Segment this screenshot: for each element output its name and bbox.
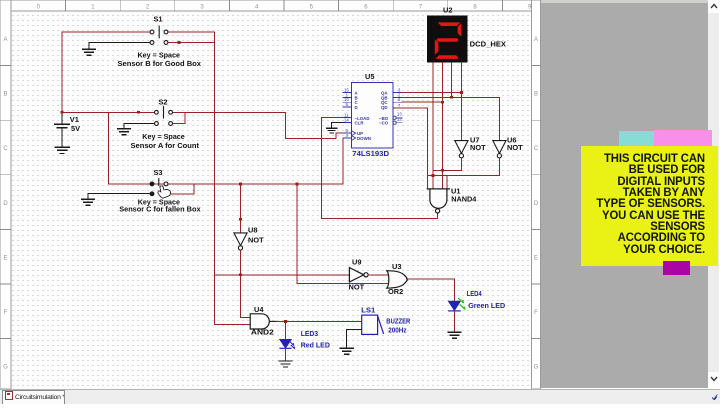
node QA junction xyxy=(460,91,463,94)
LED4 glow arrows xyxy=(459,299,466,310)
wire S2-to-S3 vertical xyxy=(108,112,110,184)
wire U6 output to NAND xyxy=(427,158,499,176)
wire U7 output to NAND xyxy=(434,158,462,171)
svg-text:LED3: LED3 xyxy=(301,329,318,338)
svg-text:LS1: LS1 xyxy=(361,306,375,315)
or-gate U3 xyxy=(387,271,408,288)
wire QC row xyxy=(402,101,442,103)
wire display lead1 to NAND xyxy=(432,62,434,189)
wire S3 row1 xyxy=(109,183,343,185)
wire S2 row2 right xyxy=(173,112,185,123)
ground V1 xyxy=(55,147,69,153)
wire to AND2 input B xyxy=(215,324,251,326)
node U8-U9 junction xyxy=(239,273,242,276)
wire S1 row2 right xyxy=(168,42,215,44)
svg-text:12: 12 xyxy=(397,116,402,121)
svg-text:LED4: LED4 xyxy=(467,289,483,298)
wire DOWN pin to S3 row xyxy=(342,138,344,184)
svg-text:Key = Space: Key = Space xyxy=(142,132,185,141)
counter U5 body xyxy=(352,83,393,148)
top window edge strip xyxy=(0,0,720,3)
seven-segment display U2 xyxy=(427,15,468,62)
svg-text:U4: U4 xyxy=(254,305,264,314)
U5 clock wedges xyxy=(352,131,356,141)
wire NAND input 4 stub xyxy=(446,176,448,189)
svg-text:D: D xyxy=(534,201,539,207)
node S3-OR2 junction xyxy=(296,183,299,186)
U5 pin numbers xyxy=(344,87,402,138)
svg-text:OR2: OR2 xyxy=(388,287,403,296)
U5 left pin stubs xyxy=(343,92,352,138)
wire display lead2 to NAND xyxy=(441,62,443,189)
node battery top junction xyxy=(61,111,64,114)
wire S3 to OR2 lower input xyxy=(297,184,388,284)
U5 pin names xyxy=(355,90,389,141)
svg-text:200Hz: 200Hz xyxy=(388,326,407,335)
svg-text:U2: U2 xyxy=(443,5,452,14)
wire LS1 to ground xyxy=(347,330,362,348)
display pin stubs xyxy=(433,63,462,70)
node S2 row1 dot xyxy=(137,111,140,114)
svg-text:C: C xyxy=(534,146,539,152)
wire V1 to S1 vertical xyxy=(61,32,63,112)
switch S1 xyxy=(150,26,168,44)
svg-text:74LS193D: 74LS193D xyxy=(352,149,389,158)
svg-text:QD: QD xyxy=(381,105,388,110)
wire long vertical from S1 down to AND2 xyxy=(214,32,216,325)
wire display lead4 to U7 xyxy=(460,62,462,140)
svg-text:NOT: NOT xyxy=(248,236,264,245)
svg-text:DCD_HEX: DCD_HEX xyxy=(470,40,506,49)
svg-text:~CO: ~CO xyxy=(379,121,389,126)
svg-text:BUZZER: BUZZER xyxy=(386,317,411,326)
wire S2 ground link xyxy=(124,124,154,129)
svg-text:Red LED: Red LED xyxy=(301,341,331,350)
svg-text:U3: U3 xyxy=(392,262,401,271)
svg-text:D: D xyxy=(355,105,358,110)
wire to U9 input xyxy=(215,274,350,276)
ground S3 xyxy=(82,199,95,205)
canvas background xyxy=(11,11,532,389)
ground LED3 xyxy=(279,361,292,367)
ground S1 xyxy=(82,49,95,55)
svg-text:CLR: CLR xyxy=(355,121,365,126)
svg-text:A: A xyxy=(534,37,538,43)
ground LS1 xyxy=(340,348,353,354)
svg-text:Sensor C for fallen Box: Sensor C for fallen Box xyxy=(119,205,201,214)
wire LED3 to ground xyxy=(285,348,287,360)
node QB junction xyxy=(450,96,453,99)
svg-text:C: C xyxy=(3,146,8,152)
svg-text:Sensor B for Good Box: Sensor B for Good Box xyxy=(118,59,202,68)
wire S3 ground link xyxy=(88,193,150,198)
wire QD row xyxy=(393,107,427,109)
battery V1 xyxy=(55,113,69,147)
svg-text:D: D xyxy=(3,201,8,207)
ground S2 xyxy=(117,129,130,135)
wire QB row to U6 xyxy=(402,97,499,140)
svg-text:NOT: NOT xyxy=(470,143,486,152)
inverter U7 xyxy=(455,141,468,158)
svg-text:E: E xyxy=(3,255,7,261)
wire AND2 output to LS1 xyxy=(276,320,361,322)
svg-text:G: G xyxy=(534,365,539,371)
wire S1 ground link xyxy=(89,43,150,49)
svg-text:AND2: AND2 xyxy=(251,328,274,337)
node lead2-U7out junction xyxy=(441,169,444,172)
svg-text:NOT: NOT xyxy=(507,143,523,152)
wire LED4 to ground xyxy=(453,311,455,332)
wire NAND output to LOAD xyxy=(322,118,438,219)
switch S3 xyxy=(150,179,168,196)
svg-text:V1: V1 xyxy=(70,115,79,124)
buzzer LS1 xyxy=(362,315,384,334)
svg-text:Sensor A for Count: Sensor A for Count xyxy=(131,141,200,150)
svg-text:F: F xyxy=(534,310,538,316)
svg-text:U9: U9 xyxy=(352,258,361,267)
and-gate U4 xyxy=(250,314,276,329)
LED3 xyxy=(280,340,295,349)
svg-text:G: G xyxy=(3,365,8,371)
wire display lead3 xyxy=(450,62,452,97)
wire S1 row1 right xyxy=(168,31,215,33)
wire OR2 output to LED4 xyxy=(406,279,454,301)
svg-text:S1: S1 xyxy=(154,15,163,24)
svg-text:B: B xyxy=(3,92,7,98)
wire CLR to ground xyxy=(332,122,343,127)
svg-text:5V: 5V xyxy=(71,124,80,133)
inverter U9 xyxy=(349,268,368,282)
U5 right pin stubs xyxy=(393,92,402,124)
node U8 input dot xyxy=(239,218,242,221)
svg-text:F: F xyxy=(4,310,8,316)
node lead1-U6out junction xyxy=(432,174,435,177)
wire S3 row2 right riser xyxy=(168,184,194,194)
svg-text:S2: S2 xyxy=(159,98,168,107)
node S3-U8 junction xyxy=(239,183,242,186)
wire U8 output down to AND2 xyxy=(241,250,251,317)
svg-text:NAND4: NAND4 xyxy=(451,195,477,204)
svg-text:A: A xyxy=(3,37,7,43)
node LED3 branch xyxy=(284,320,287,323)
svg-text:U5: U5 xyxy=(365,72,374,81)
wire LED3 branch down xyxy=(285,321,287,339)
svg-text:S3: S3 xyxy=(154,168,163,177)
node QC junction xyxy=(441,101,444,104)
svg-text:NOT: NOT xyxy=(349,283,365,292)
svg-text:DOWN: DOWN xyxy=(357,136,371,141)
wire QD vertical to NAND xyxy=(426,108,428,189)
display digit 2 segments xyxy=(435,22,462,59)
svg-text:E: E xyxy=(534,255,538,261)
ground CLR xyxy=(326,128,336,133)
wire U9 output to OR2 xyxy=(368,274,388,276)
switch S2 xyxy=(155,107,173,126)
inverter U8 xyxy=(234,233,247,250)
wire S2 row1 left xyxy=(62,111,154,113)
svg-text:U8: U8 xyxy=(248,226,257,235)
wire QA row xyxy=(402,91,461,93)
cursor hand xyxy=(158,186,171,198)
svg-text:Green LED: Green LED xyxy=(468,301,506,310)
svg-text:14: 14 xyxy=(344,117,349,122)
ground LED4 xyxy=(448,332,461,338)
wire S3 to U8 input xyxy=(239,184,241,232)
inverter U6 xyxy=(493,141,506,158)
wire S1 row1 left xyxy=(62,31,150,33)
nand-gate U1 xyxy=(427,189,450,213)
node S1 row2 junction xyxy=(178,41,181,44)
LED4 xyxy=(449,301,460,311)
svg-text:B: B xyxy=(534,92,538,98)
wire S2 row1 right to U5 xyxy=(173,112,343,138)
